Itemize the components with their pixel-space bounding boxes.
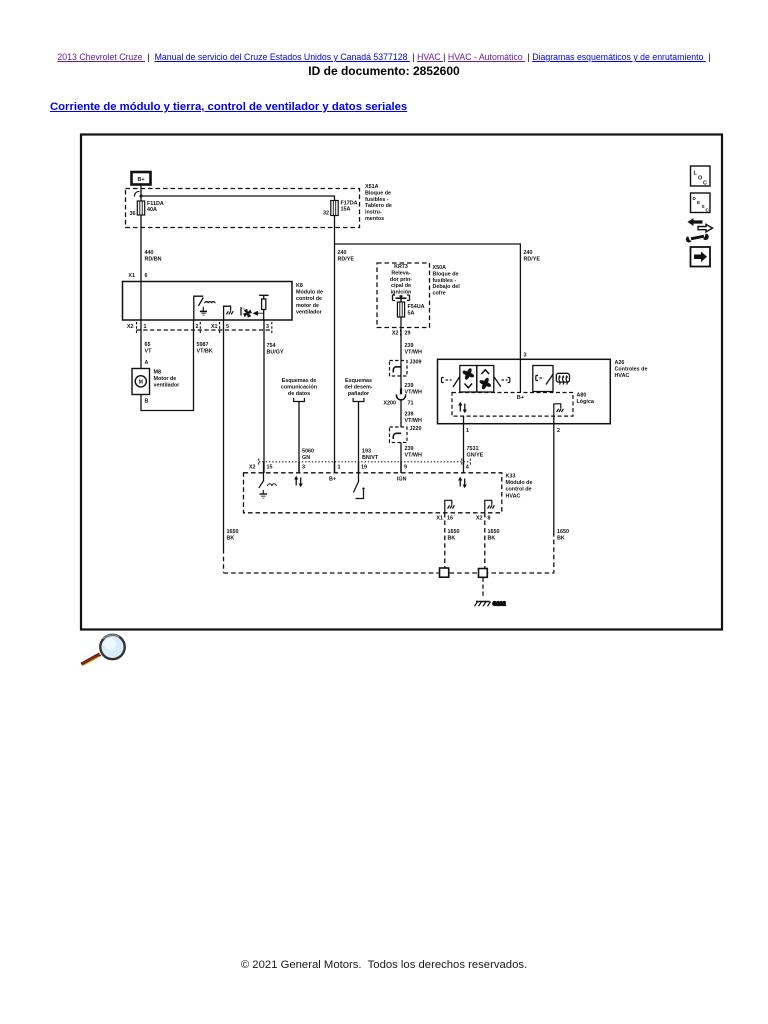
wire 193 BN/VT: [358, 402, 360, 474]
wire 440 RD/BN: [140, 215, 142, 282]
svg-text:control de: control de: [296, 296, 322, 302]
svg-text:B: B: [145, 399, 149, 405]
svg-text:instru-: instru-: [365, 210, 382, 216]
svg-text:1650: 1650: [557, 529, 569, 535]
wire 1650 BK from X1-16: [444, 513, 446, 569]
wire 754 BU/GY: [263, 320, 265, 473]
svg-text:BN/VT: BN/VT: [362, 455, 379, 461]
icon next-arrow box: [691, 247, 711, 267]
icon LOC box: [691, 166, 711, 187]
svg-text:F17DA: F17DA: [341, 201, 358, 207]
svg-text:16: 16: [447, 516, 453, 522]
rear defrost button: [533, 366, 553, 392]
svg-text:X2: X2: [249, 465, 256, 471]
svg-text:Motor de: Motor de: [154, 376, 177, 382]
svg-text:cofre: cofre: [433, 291, 446, 297]
svg-text:L: L: [694, 171, 698, 177]
svg-text:RD/YE: RD/YE: [338, 256, 355, 262]
svg-text:GN/YE: GN/YE: [467, 452, 484, 458]
svg-text:3: 3: [524, 353, 527, 359]
svg-text:Bloque de: Bloque de: [365, 190, 391, 196]
svg-text:KR73: KR73: [394, 264, 408, 270]
label X50A underhood fuse block: [433, 265, 461, 297]
svg-text:1: 1: [144, 324, 147, 330]
K8 internal fan feedback icon: [241, 307, 251, 317]
svg-text:HVAC: HVAC: [506, 493, 521, 499]
svg-text:193: 193: [362, 449, 371, 455]
diagram frame: [81, 135, 722, 630]
svg-text:K33: K33: [506, 474, 516, 480]
K33 up-down arrows (pin 4): [458, 477, 467, 488]
svg-text:C: C: [706, 208, 710, 213]
svg-text:mentos: mentos: [365, 216, 384, 222]
svg-text:BK: BK: [488, 535, 496, 541]
svg-text:Releva-: Releva-: [391, 270, 410, 276]
K33 serial data arrows (pin 3): [264, 462, 303, 487]
wire B+ into A80: [519, 359, 521, 392]
svg-text:GN: GN: [302, 455, 310, 461]
svg-text:40A: 40A: [147, 207, 157, 213]
M8 label: [154, 370, 181, 389]
svg-text:32: 32: [323, 211, 329, 217]
svg-text:dor prin-: dor prin-: [390, 277, 412, 283]
wire 5987 VT/BK motor return: [141, 320, 194, 411]
K33 module dashed box: [244, 473, 502, 513]
svg-text:F54UA: F54UA: [408, 304, 425, 310]
svg-text:X200: X200: [383, 401, 396, 407]
svg-text:3: 3: [302, 465, 305, 471]
svg-text:A: A: [145, 360, 149, 366]
wire to G202: [482, 578, 484, 599]
A80 logic dashed box: [452, 393, 573, 417]
A80 label: [577, 393, 595, 406]
svg-text:IGN: IGN: [397, 477, 407, 483]
KR73 label: [390, 264, 412, 295]
svg-text:X2: X2: [392, 331, 399, 337]
svg-text:2: 2: [196, 324, 199, 330]
off-page ref Esquemas de comunicacion de datos: [281, 378, 317, 402]
K8 internal resistor: [259, 295, 268, 320]
svg-text:240: 240: [524, 250, 533, 256]
svg-text:5987: 5987: [197, 342, 209, 348]
breadcrumb nav: [0, 52, 768, 62]
svg-text:G202: G202: [493, 602, 506, 608]
svg-text:O: O: [698, 176, 702, 182]
svg-text:Esquemas: Esquemas: [345, 378, 372, 384]
svg-text:3: 3: [266, 324, 269, 330]
fan button right switch: [494, 377, 510, 387]
K8 module box: [123, 282, 293, 321]
svg-text:VT: VT: [145, 348, 153, 354]
svg-text:M: M: [139, 380, 143, 386]
svg-text:X51A: X51A: [365, 184, 379, 190]
svg-text:Controles de: Controles de: [615, 366, 648, 372]
svg-text:440: 440: [145, 250, 154, 256]
wire A26 pin2 down: [553, 416, 555, 532]
svg-text:Lógica: Lógica: [577, 399, 595, 405]
svg-text:RD/BN: RD/BN: [145, 256, 162, 262]
wire 239 VT/WH segment 1: [400, 317, 402, 393]
svg-text:X1: X1: [436, 516, 443, 522]
svg-text:de datos: de datos: [288, 391, 310, 397]
svg-text:control de: control de: [506, 487, 532, 493]
svg-text:S: S: [702, 204, 705, 209]
svg-text:BK: BK: [227, 535, 235, 541]
magnifier icon: [81, 635, 125, 666]
svg-text:1: 1: [338, 465, 341, 471]
A26 label: [615, 360, 648, 379]
svg-text:1650: 1650: [488, 529, 500, 535]
svg-text:X2: X2: [127, 324, 134, 330]
fuse F11DA 40A: [137, 201, 164, 215]
svg-text:A26: A26: [615, 360, 625, 366]
svg-text:Módulo de: Módulo de: [506, 480, 533, 486]
svg-text:del desem-: del desem-: [344, 384, 372, 390]
splice block square left: [440, 568, 449, 577]
K33 PWM icon at X1-16: [445, 500, 455, 513]
svg-text:ventilador: ventilador: [296, 309, 323, 315]
svg-text:motor de: motor de: [296, 303, 319, 309]
K33 connector dotted line: [259, 461, 470, 463]
svg-text:4: 4: [466, 465, 469, 471]
svg-text:ventilador: ventilador: [154, 383, 181, 389]
K33 switch (pin 19): [354, 462, 365, 499]
KR73 relay contact terminal: [393, 295, 410, 302]
splice J220: [390, 426, 422, 443]
svg-text:X1: X1: [128, 273, 135, 279]
off-page ref Esquemas del desempanador: [344, 378, 372, 402]
svg-text:2: 2: [557, 428, 560, 434]
svg-text:VT/WH: VT/WH: [405, 389, 422, 395]
svg-text:J309: J309: [410, 360, 422, 366]
svg-text:X50A: X50A: [433, 265, 447, 271]
svg-text:fusibles -: fusibles -: [365, 197, 389, 203]
svg-text:F11DA: F11DA: [147, 201, 164, 207]
ground G202: [475, 602, 506, 608]
svg-text:X1: X1: [211, 324, 218, 330]
svg-text:1: 1: [466, 428, 469, 434]
svg-text:9: 9: [404, 465, 407, 471]
wire 5060 GN: [298, 402, 300, 474]
junction hook at B+ feed: [134, 191, 139, 196]
svg-text:VT/BK: VT/BK: [197, 348, 213, 354]
page title link: [50, 101, 407, 113]
svg-text:19: 19: [361, 465, 367, 471]
battery B+ symbol: [132, 172, 151, 185]
relay KR73 dashed box: [377, 263, 430, 328]
wire 239 VT/WH segment 4: [400, 443, 402, 474]
fuse F17DA 15A: [331, 201, 358, 216]
icon DESC box: [691, 193, 711, 213]
svg-text:cipal de: cipal de: [391, 283, 411, 289]
fan button left switch: [442, 377, 460, 388]
A80 up-down arrows: [458, 402, 467, 413]
K33 PWM icon at X2-8: [485, 500, 495, 513]
svg-text:5A: 5A: [408, 310, 415, 316]
HVAC controls A26 box: [438, 359, 611, 423]
splice J309: [390, 360, 422, 377]
wire 240 RD/YE branch to A26: [335, 244, 521, 359]
svg-text:1650: 1650: [227, 529, 239, 535]
svg-text:RD/YE: RD/YE: [524, 256, 541, 262]
svg-text:29: 29: [405, 331, 411, 337]
wire bus inside fuse block: [141, 196, 335, 201]
K8 internal ground switch driver: [194, 296, 215, 320]
wire B+ to fuse block: [140, 185, 142, 202]
svg-text:754: 754: [267, 343, 276, 349]
svg-text:B+: B+: [517, 395, 524, 401]
svg-text:Esquemas de: Esquemas de: [282, 378, 317, 384]
svg-text:A80: A80: [577, 393, 587, 399]
wire through K8 (B+ to motor feed): [140, 282, 142, 321]
svg-text:Bloque de: Bloque de: [433, 271, 459, 277]
fan down button: [460, 366, 477, 393]
ground bus 1650 BK: [224, 572, 439, 574]
fuse block X51A dashed box: [126, 189, 360, 228]
inline connector X200 pin 71: [383, 389, 413, 428]
svg-text:B+: B+: [137, 177, 144, 183]
svg-text:C: C: [703, 181, 707, 187]
svg-text:VT/WH: VT/WH: [405, 418, 422, 424]
splice block square right: [479, 569, 488, 578]
svg-text:D: D: [693, 196, 697, 201]
svg-text:VT/WH: VT/WH: [405, 452, 422, 458]
K33 B+ label (pin 1): [334, 462, 336, 473]
svg-text:239: 239: [405, 446, 414, 452]
svg-text:5060: 5060: [302, 449, 314, 455]
wire 7531 into K33 pin 4: [463, 461, 465, 474]
svg-text:15A: 15A: [341, 207, 351, 213]
svg-text:pañador: pañador: [348, 391, 370, 397]
document id: [0, 64, 768, 78]
K8 label: [296, 283, 323, 315]
svg-text:BK: BK: [557, 535, 565, 541]
wire 1650 BK from K8 ground pin 5: [223, 320, 225, 549]
svg-text:BK: BK: [448, 535, 456, 541]
svg-text:8: 8: [488, 516, 491, 522]
K33 IGN label (pin 9): [400, 462, 402, 473]
wire 240 RD/YE main: [334, 216, 336, 474]
svg-text:36: 36: [130, 211, 136, 217]
motor M8 box: [132, 369, 150, 395]
svg-text:HVAC: HVAC: [615, 373, 630, 379]
K8 internal feedback arrow: [253, 311, 258, 316]
svg-text:Módulo de: Módulo de: [296, 290, 323, 296]
svg-text:X2: X2: [476, 516, 483, 522]
svg-text:fusibles -: fusibles -: [433, 278, 457, 284]
svg-text:239: 239: [405, 343, 414, 349]
svg-text:VT/WH: VT/WH: [405, 349, 422, 355]
K8 bottom connector dashed row: [137, 329, 273, 331]
svg-text:B+: B+: [329, 477, 336, 483]
fan up button: [477, 366, 494, 393]
K8 internal PWM signal icon: [224, 306, 234, 320]
svg-text:1650: 1650: [448, 529, 460, 535]
wire 65 VT: [140, 320, 142, 369]
svg-text:Debajo del: Debajo del: [433, 284, 461, 290]
svg-text:7531: 7531: [467, 446, 479, 452]
svg-text:71: 71: [408, 401, 414, 407]
svg-text:comunicación: comunicación: [281, 384, 317, 390]
svg-text:J220: J220: [410, 426, 422, 432]
fuse F54UA 5A: [397, 302, 424, 317]
svg-text:5: 5: [226, 324, 229, 330]
svg-text:M8: M8: [154, 370, 162, 376]
wire A26 pin1: [463, 416, 465, 461]
svg-text:6: 6: [145, 273, 148, 279]
svg-text:240: 240: [338, 250, 347, 256]
label X51A: [365, 184, 392, 222]
A80 PWM output icon: [554, 404, 564, 416]
svg-text:Tablero de: Tablero de: [365, 203, 392, 209]
icon schematic-repair (arrows and wrench): [686, 218, 713, 243]
K33 internal switch to ground (pin 15): [259, 462, 277, 498]
svg-text:BU/GY: BU/GY: [267, 349, 284, 355]
svg-text:E: E: [697, 200, 700, 205]
rear defrost icon: [556, 373, 569, 384]
svg-text:15: 15: [267, 465, 273, 471]
svg-text:239: 239: [405, 412, 414, 418]
wire 1650 BK from X2-8: [484, 513, 486, 569]
footer copyright: [0, 959, 768, 971]
svg-text:K8: K8: [296, 283, 303, 289]
K33 label: [506, 474, 533, 500]
svg-text:239: 239: [405, 383, 414, 389]
svg-text:65: 65: [145, 342, 151, 348]
